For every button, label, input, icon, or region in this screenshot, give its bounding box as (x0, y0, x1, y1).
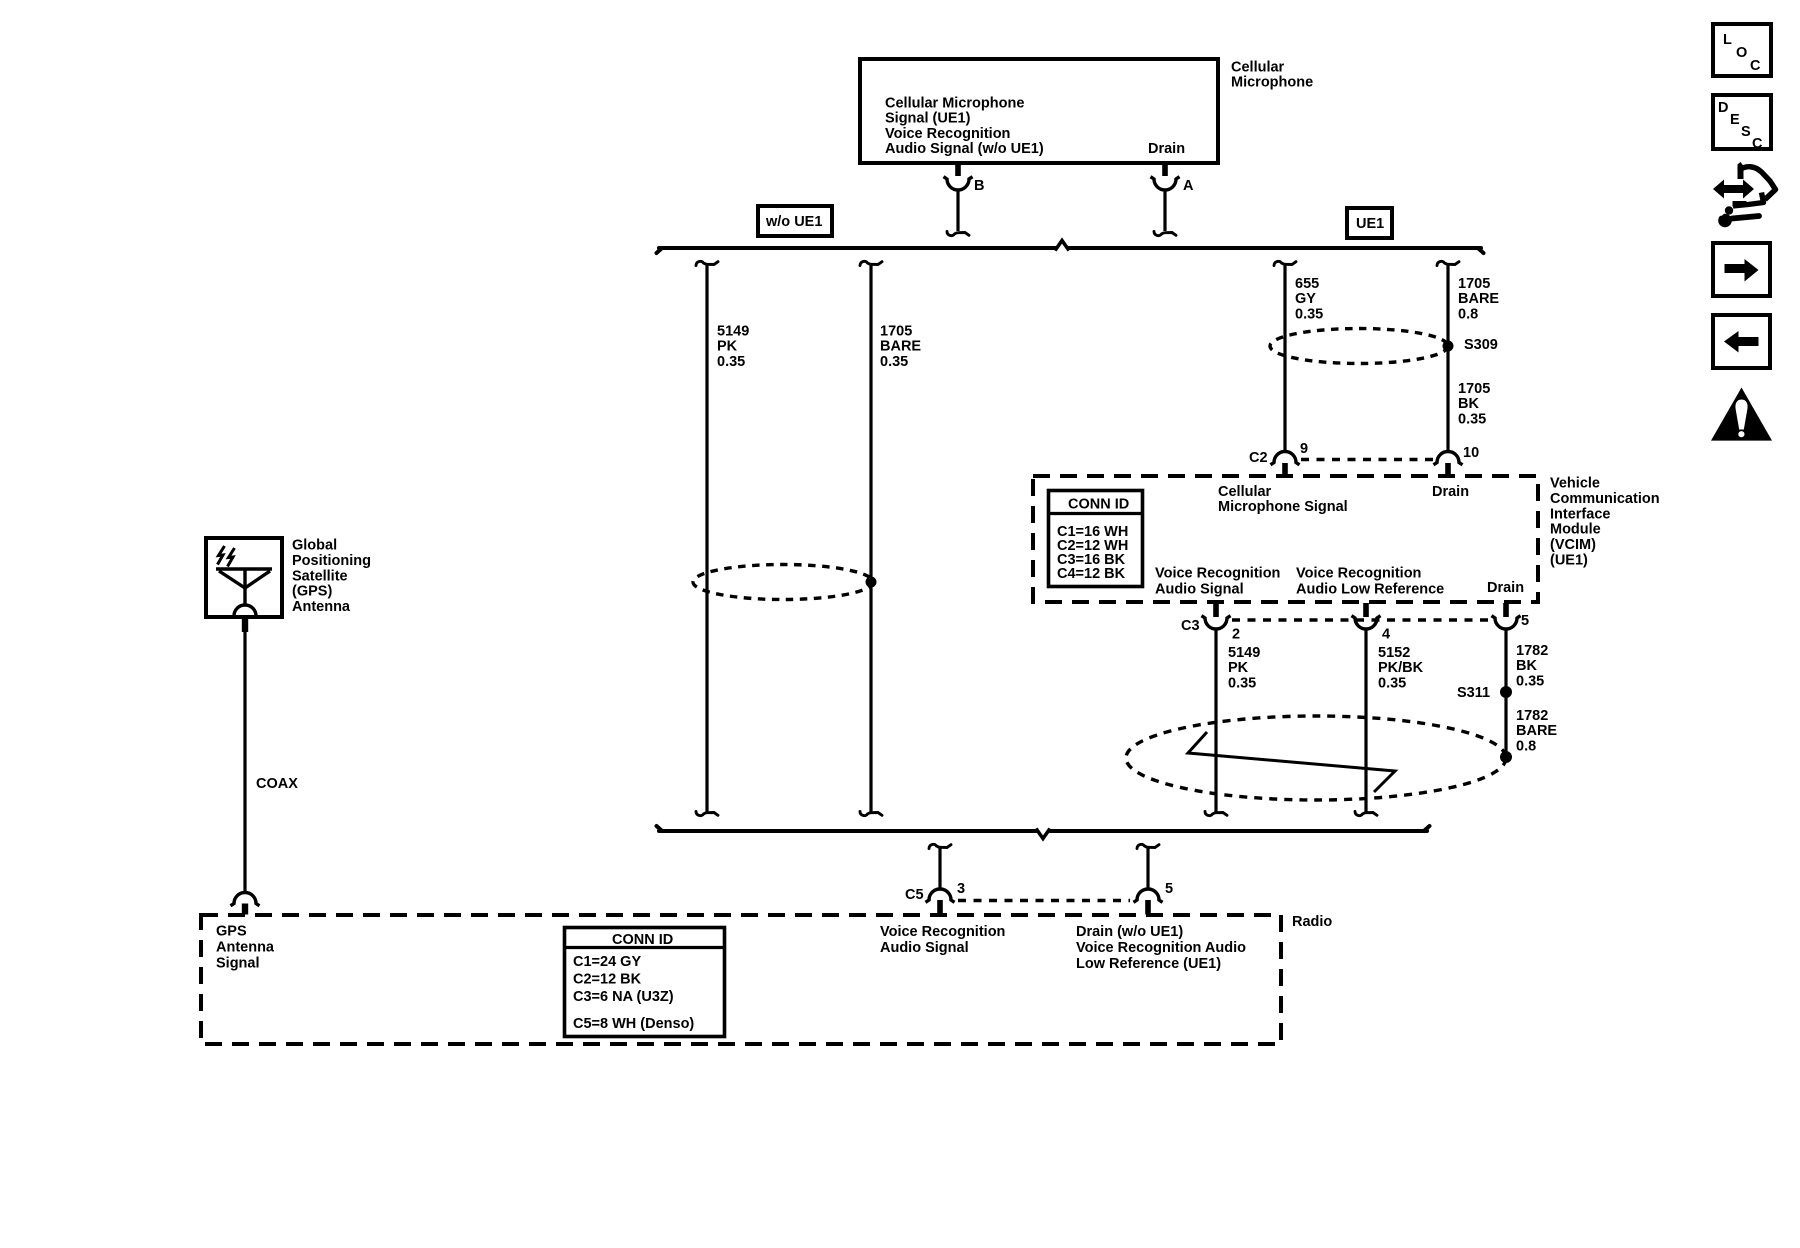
icon: LOC button (1713, 24, 1771, 76)
svg-text:C5: C5 (905, 887, 924, 903)
splice S311 (1500, 686, 1512, 698)
svg-text:BK: BK (1458, 396, 1479, 412)
svg-text:BARE: BARE (1516, 723, 1557, 739)
connector C3 cavity 4 (1352, 616, 1381, 629)
shield ellipse (left pair) (693, 565, 873, 600)
svg-text:2: 2 (1232, 627, 1240, 643)
svg-text:Voice Recognition: Voice Recognition (880, 924, 1005, 940)
svg-text:GY: GY (1295, 291, 1316, 307)
label: wire 1705 BARE 0.35 (880, 324, 921, 370)
svg-text:4: 4 (1382, 627, 1390, 643)
GPS antenna signal waves (218, 546, 235, 567)
wire 655 GY (1283, 265, 1286, 451)
wire COAX (243, 632, 246, 891)
svg-text:C: C (1750, 58, 1761, 74)
svg-text:GPS: GPS (216, 924, 247, 940)
svg-text:PK: PK (1228, 660, 1249, 676)
connector C3 cavity 5 (1492, 616, 1521, 629)
label box: w/o UE1 (758, 206, 832, 236)
svg-text:(VCIM): (VCIM) (1550, 537, 1596, 553)
svg-text:PK: PK (717, 339, 738, 355)
svg-text:0.8: 0.8 (1516, 738, 1536, 754)
svg-text:0.35: 0.35 (1458, 411, 1486, 427)
svg-text:Audio Low Reference: Audio Low Reference (1296, 582, 1444, 598)
label: wire 5152 PK/BK 0.35 (1378, 645, 1424, 691)
component box: Radio dashed (201, 915, 1281, 1044)
label box: UE1 (1347, 208, 1392, 238)
bus break chevron (top bus) (1055, 241, 1069, 251)
label: wire 1705 BARE 0.8 (1458, 276, 1499, 322)
shield ellipse (large, lower) (1126, 716, 1506, 800)
shield junction dot on 1705 BARE (866, 577, 877, 588)
connector C5 cavity 3 (926, 889, 955, 902)
connector C2 cavity 9 (1271, 452, 1300, 465)
svg-text:C3: C3 (1181, 618, 1200, 634)
svg-text:Drain (w/o UE1): Drain (w/o UE1) (1076, 924, 1183, 940)
connector C5 cavity 3 stub (937, 900, 943, 915)
svg-text:5152: 5152 (1378, 645, 1410, 661)
svg-text:w/o UE1: w/o UE1 (765, 214, 822, 230)
svg-text:BK: BK (1516, 658, 1537, 674)
svg-text:Audio Signal: Audio Signal (880, 940, 969, 956)
wire hook: 5149 PK bottom (696, 812, 718, 816)
svg-text:Audio Signal (w/o UE1): Audio Signal (w/o UE1) (885, 141, 1044, 157)
svg-text:E: E (1730, 112, 1740, 128)
svg-text:Voice Recognition Audio: Voice Recognition Audio (1076, 940, 1246, 956)
wire 1705 BARE 0.8 / 1705 BK (1446, 265, 1449, 451)
connector A (1151, 177, 1180, 190)
wire hook: C5 pin3 drop (929, 844, 951, 848)
label: VCIM pin names top (1218, 484, 1469, 515)
svg-text:S309: S309 (1464, 337, 1498, 353)
svg-text:Antenna: Antenna (216, 940, 275, 956)
label: Radio pin names (216, 924, 1246, 973)
svg-text:Drain: Drain (1432, 484, 1469, 500)
svg-text:C2: C2 (1249, 450, 1268, 466)
wire hook: 655 GY top (1274, 261, 1296, 265)
connector C3 cavity 4 stub (1363, 603, 1369, 617)
label: Cellular Microphone (component name) (1231, 60, 1313, 91)
connector C2 cavity 10 (1434, 452, 1463, 465)
bus break chevron (bottom bus) (1036, 829, 1050, 839)
connector C2 cavity 9 stub (1282, 463, 1288, 477)
connector C3 dashed terminal line (1232, 618, 1491, 622)
label: VCIM name (1550, 476, 1660, 569)
wire 1782 BK / 1782 BARE (1504, 631, 1507, 758)
svg-text:A: A (1183, 178, 1194, 194)
svg-text:1782: 1782 (1516, 708, 1548, 724)
wire hook: 5149 PK top (696, 261, 718, 265)
connector C3 cavity 2 stub (1213, 603, 1219, 617)
svg-text:655: 655 (1295, 276, 1319, 292)
svg-text:5: 5 (1521, 613, 1529, 629)
svg-text:1705: 1705 (1458, 276, 1490, 292)
svg-text:BARE: BARE (1458, 291, 1499, 307)
label: wire 1782 BARE 0.8 (1516, 708, 1557, 754)
svg-text:C5=8 WH (Denso): C5=8 WH (Denso) (573, 1016, 694, 1032)
shield ellipse (right pair) (1270, 329, 1448, 364)
svg-text:CONN ID: CONN ID (1068, 497, 1129, 513)
svg-text:1705: 1705 (880, 324, 912, 340)
svg-text:COAX: COAX (256, 776, 298, 792)
icon: DESC button (1713, 95, 1771, 152)
wire 5149 PK (w/o UE1 branch) (705, 265, 708, 812)
svg-text:0.35: 0.35 (1378, 675, 1406, 691)
svg-text:Positioning: Positioning (292, 553, 371, 569)
svg-text:Drain: Drain (1148, 141, 1185, 157)
wire from connector A to bus (1163, 191, 1166, 231)
svg-text:S311: S311 (1457, 685, 1490, 701)
svg-text:Communication: Communication (1550, 491, 1660, 507)
svg-text:C3=6 NA (U3Z): C3=6 NA (U3Z) (573, 989, 674, 1005)
wire: bottom harness bus (657, 826, 1430, 831)
label: wire 5149 PK 0.35 (UE1) (1228, 645, 1260, 691)
label: GPS Antenna name (292, 538, 371, 616)
connector B stub (955, 163, 961, 176)
wire 5152 PK/BK (1364, 631, 1367, 813)
svg-text:Radio: Radio (1292, 914, 1332, 930)
svg-text:5: 5 (1165, 881, 1173, 897)
wire hook: 1705 BARE bottom (860, 812, 882, 816)
svg-text:Satellite: Satellite (292, 568, 348, 584)
wire hook: C5 pin5 drop (1137, 844, 1159, 848)
icon: next arrow button (1713, 243, 1770, 296)
wire 5149 PK (UE1 branch) (1214, 631, 1217, 813)
svg-text:C1=24 GY: C1=24 GY (573, 954, 641, 970)
label: Cellular Microphone box pin names (885, 96, 1185, 158)
svg-text:Microphone Signal: Microphone Signal (1218, 499, 1348, 515)
wire to connector C5 pin 5 (1146, 848, 1149, 888)
component box: Cellular Microphone (860, 59, 1218, 163)
svg-text:Voice Recognition: Voice Recognition (1296, 566, 1421, 582)
svg-text:9: 9 (1300, 441, 1308, 457)
svg-text:5149: 5149 (1228, 645, 1260, 661)
svg-text:Antenna: Antenna (292, 599, 351, 615)
wire hook: 1705 BARE 0.8 top (1437, 261, 1459, 265)
label: wire 655 GY 0.35 (1295, 276, 1323, 322)
svg-text:Signal (UE1): Signal (UE1) (885, 111, 971, 127)
svg-text:Interface: Interface (1550, 506, 1610, 522)
svg-text:Module: Module (1550, 522, 1601, 538)
connector B (944, 177, 973, 190)
wire from connector B to bus (956, 191, 959, 231)
wire hook: 5149 PK UE1 bottom (1205, 812, 1227, 816)
svg-text:1782: 1782 (1516, 643, 1548, 659)
wire hook: 5152 PK/BK bottom (1355, 812, 1377, 816)
wire 1705 BARE 0.35 (869, 265, 872, 812)
svg-text:Signal: Signal (216, 956, 260, 972)
icon: warning triangle (1711, 388, 1772, 441)
svg-text:Audio Signal: Audio Signal (1155, 582, 1244, 598)
svg-text:UE1: UE1 (1356, 216, 1384, 232)
connector C2 cavity 10 stub (1445, 463, 1451, 477)
svg-text:D: D (1718, 100, 1728, 116)
svg-text:BARE: BARE (880, 339, 921, 355)
svg-text:(UE1): (UE1) (1550, 553, 1588, 569)
svg-text:Cellular: Cellular (1218, 484, 1272, 500)
shield drain junction dot (1500, 751, 1512, 763)
svg-text:PK/BK: PK/BK (1378, 660, 1424, 676)
CONN ID table (Radio) (564, 928, 725, 1037)
svg-text:C: C (1752, 136, 1763, 152)
svg-text:CONN ID: CONN ID (612, 932, 673, 948)
connector C3 cavity 5 stub (1503, 603, 1509, 617)
svg-text:B: B (974, 178, 984, 194)
GPS antenna stub (242, 617, 248, 632)
svg-text:C2=12 BK: C2=12 BK (573, 972, 642, 988)
svg-text:5149: 5149 (717, 324, 749, 340)
connector A stub (1162, 163, 1168, 176)
label: VCIM pin names bottom (1155, 566, 1524, 598)
component box: Vehicle Communication Interface Module (VCIM) dashed (1033, 476, 1538, 602)
connector C5 cavity 5 stub (1145, 900, 1151, 915)
wire hook at bus (A drop) (1154, 232, 1176, 236)
icon: previous arrow button (1713, 315, 1770, 368)
svg-text:0.35: 0.35 (1228, 675, 1256, 691)
svg-text:0.35: 0.35 (1516, 673, 1544, 689)
svg-text:S: S (1741, 124, 1751, 140)
svg-text:(GPS): (GPS) (292, 584, 332, 600)
svg-text:Voice Recognition: Voice Recognition (1155, 566, 1280, 582)
wire hook at bus (B drop) (947, 232, 969, 236)
svg-text:Cellular Microphone: Cellular Microphone (885, 96, 1024, 112)
label: wire 1782 BK 0.35 (1516, 643, 1548, 689)
wire to connector C5 pin 3 (938, 848, 941, 888)
wire: top harness bus (657, 248, 1484, 253)
svg-text:Global: Global (292, 538, 337, 554)
svg-text:O: O (1736, 45, 1747, 61)
wire hook: 1705 BARE top (860, 261, 882, 265)
svg-text:0.8: 0.8 (1458, 306, 1478, 322)
svg-text:C4=12 BK: C4=12 BK (1057, 566, 1126, 582)
connector C5 cavity 5 (1134, 889, 1163, 902)
svg-text:Vehicle: Vehicle (1550, 476, 1600, 492)
svg-text:0.35: 0.35 (1295, 306, 1323, 322)
GPS coax connector stub (242, 904, 248, 915)
icon: diagnostic arrows and wrench (1710, 162, 1776, 227)
svg-text:10: 10 (1463, 445, 1479, 461)
svg-text:Low Reference (UE1): Low Reference (UE1) (1076, 956, 1221, 972)
component box: GPS Antenna (206, 538, 282, 617)
splice S309 (1443, 341, 1454, 352)
label: wire 5149 PK 0.35 (717, 324, 749, 370)
svg-text:1705: 1705 (1458, 381, 1490, 397)
connector C5 dashed terminal line (958, 899, 1130, 903)
connector C3 cavity 2 (1202, 616, 1231, 629)
svg-text:Drain: Drain (1487, 580, 1524, 596)
svg-text:3: 3 (957, 881, 965, 897)
svg-text:Microphone: Microphone (1231, 75, 1313, 91)
svg-text:0.35: 0.35 (880, 354, 908, 370)
label: wire 1705 BK 0.35 (1458, 381, 1490, 427)
svg-text:Voice Recognition: Voice Recognition (885, 126, 1010, 142)
svg-text:Cellular: Cellular (1231, 60, 1285, 76)
connector C2 dashed terminal line (1301, 458, 1434, 462)
connector at radio (GPS coax) (231, 893, 260, 906)
svg-text:L: L (1723, 32, 1732, 48)
CONN ID table (VCIM) (1048, 491, 1143, 587)
twisted pair zigzag symbol (1188, 732, 1395, 792)
svg-text:0.35: 0.35 (717, 354, 745, 370)
GPS antenna symbol (216, 569, 272, 616)
